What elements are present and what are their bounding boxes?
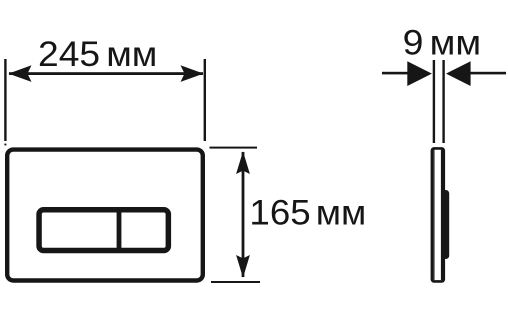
dimension line 165 (vertical) — [242, 152, 245, 277]
dimension line 9 right segment — [470, 72, 506, 75]
side view plate profile — [432, 148, 444, 281]
extension line left (front view width) — [4, 59, 6, 141]
extension line top (front view height) — [210, 147, 258, 149]
arrowhead bottom (165) — [236, 255, 250, 278]
arrowhead right (9, pointing left) — [446, 61, 471, 86]
label 165 mm — [249, 192, 366, 232]
label 9 mm — [403, 22, 481, 62]
svg-text:9 мм: 9 мм — [403, 22, 481, 62]
side view button bump — [443, 190, 450, 259]
dimension line 9 left segment — [382, 72, 408, 75]
arrowhead top (165) — [236, 151, 250, 174]
dimension line 245 (horizontal) — [9, 72, 203, 75]
extension line bottom (front view height) — [211, 281, 260, 283]
label 245 mm — [38, 34, 157, 74]
arrowhead left (245) — [9, 65, 32, 82]
svg-text:245 мм: 245 мм — [38, 34, 157, 74]
side view right edge thickening — [441, 150, 443, 281]
button divider — [117, 210, 122, 251]
svg-text:165 мм: 165 мм — [249, 192, 366, 232]
extension line left (side view thickness) — [433, 60, 435, 143]
arrowhead left (9, pointing right) — [407, 61, 432, 86]
side view left edge thickening — [433, 150, 434, 281]
flush plate outline (front view) — [7, 150, 203, 281]
extension line right (front view width) — [204, 59, 206, 141]
extension line right (side view thickness) — [442, 60, 444, 143]
arrowhead right (245) — [181, 65, 204, 82]
extension line left lower dot — [4, 144, 6, 146]
dual-flush button frame — [39, 210, 168, 251]
